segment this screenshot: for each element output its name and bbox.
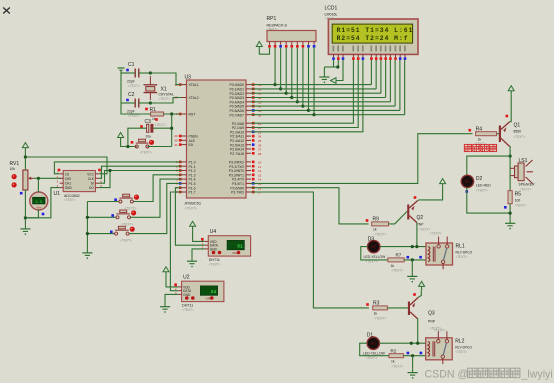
wire K3 to P1	[129, 183, 181, 233]
Q1 emitter marker	[506, 115, 509, 118]
U3 pin 12 state marker	[252, 169, 255, 172]
Q2 designator label	[417, 215, 424, 221]
wire P3.6 to R9	[251, 188, 369, 224]
ground (LCD)	[319, 73, 329, 83]
R9 text placeholder	[374, 232, 386, 236]
node analog ground junction	[24, 216, 27, 219]
RP1 pin 8 state marker	[307, 45, 310, 48]
ground (crystal caps common)	[118, 68, 125, 70]
LCD1 pin VEE state marker	[342, 57, 345, 60]
svg-text:VCC: VCC	[87, 172, 94, 176]
LS1 value label SPEAKER	[519, 183, 536, 187]
U1 pin 3 CH1	[57, 180, 72, 186]
svg-text:<TEXT>: <TEXT>	[325, 17, 336, 21]
wire C2 left	[121, 102, 135, 104]
node DI/DO junction	[108, 169, 111, 172]
wire R7 to RL1 coil bottom	[404, 259, 426, 261]
watermark glyph 3	[489, 368, 498, 377]
power +5V (U4)	[190, 221, 196, 230]
U1 VCC marker	[98, 169, 101, 172]
wire reset button left	[121, 142, 137, 147]
U3 pin 10 state marker	[252, 161, 255, 164]
svg-text:AT89C51: AT89C51	[185, 201, 202, 206]
svg-text:R4: R4	[476, 127, 483, 133]
U3 pin 8 P1.7	[176, 190, 196, 194]
U3 pin 15 P3.5/T1	[232, 182, 262, 186]
voltmeter gauge (pot display)	[30, 192, 48, 210]
wire LCD D4 vertical	[389, 60, 391, 102]
U3 pin 6 state marker	[179, 182, 182, 185]
node button rail junction 1	[86, 216, 89, 219]
R4 value label 1k	[478, 138, 482, 142]
resistor R2	[389, 354, 403, 358]
RL2 coil marker	[420, 352, 423, 355]
node RST junction	[170, 112, 173, 115]
wire P0.0 to LCD D0	[275, 84, 371, 86]
K1 red marker	[134, 195, 139, 200]
U3 pin 14 P3.4/T0	[232, 178, 262, 182]
C2 value label 22pF	[127, 110, 135, 114]
wire LCD D1 vertical	[375, 60, 377, 89]
wire K1 left	[87, 201, 119, 203]
svg-text:D2: D2	[476, 176, 483, 182]
wire cap ground rail	[120, 71, 122, 104]
LCD1 pin D2	[380, 46, 382, 58]
svg-text:RLY-SPCO: RLY-SPCO	[455, 345, 472, 349]
R3 text placeholder	[374, 316, 386, 320]
svg-text:17: 17	[258, 191, 262, 195]
svg-text:<TEXT>: <TEXT>	[456, 255, 468, 259]
svg-text:<TEXT>: <TEXT>	[182, 308, 194, 312]
RP1 text placeholder	[267, 27, 278, 31]
C1 value label 22pF	[127, 80, 135, 84]
LCD1 pin D7 state marker	[404, 57, 407, 60]
transistor Q3 (PNP)	[408, 297, 418, 318]
svg-text:10k: 10k	[10, 167, 16, 171]
svg-text:<TEXT>: <TEXT>	[374, 316, 386, 320]
R5 value label 100	[515, 198, 521, 202]
reset button text placeholder	[140, 151, 152, 155]
wire RP1 pin 5 vertical	[291, 48, 293, 98]
node RL2 coil junction b	[416, 342, 419, 345]
U4 pin 1 VDD	[202, 238, 217, 244]
wire D2 cathode to ground node	[467, 188, 510, 214]
LCD1 pin D7	[404, 46, 406, 58]
U1 value label ADC0832	[64, 194, 80, 198]
LCD1 pin D0 state marker	[370, 57, 373, 60]
R1 designator label	[150, 107, 157, 113]
C3 state marker	[140, 125, 143, 128]
svg-text:C2: C2	[128, 92, 135, 98]
D1 value label LED-YELLOW	[363, 352, 386, 356]
D3 designator label	[368, 237, 375, 243]
wire LCD D7 vertical	[404, 60, 406, 115]
wire down to LCD ground	[323, 67, 325, 73]
wire LCD VDD down	[337, 60, 339, 67]
node VCC junction	[24, 155, 27, 158]
LCD1 pin D2 state marker	[380, 57, 383, 60]
node button row junction	[126, 145, 129, 148]
wire RP1 pin 4 vertical	[285, 48, 287, 93]
wire LCD VEE down	[336, 60, 343, 81]
svg-text:CH0: CH0	[65, 177, 72, 181]
node P0.2 bus junction	[285, 92, 288, 95]
wire LCD D3 vertical	[385, 60, 387, 98]
U3 pin 1 P1.0	[176, 160, 196, 164]
C3 state marker 2	[155, 118, 158, 121]
ground (U4)	[187, 257, 197, 267]
X1 designator label	[161, 87, 167, 93]
U3 pin 10 P3.0/RXD	[229, 161, 262, 165]
RP1 pin 3 state marker	[279, 45, 282, 48]
transistor Q2 (PNP)	[407, 201, 417, 223]
op-amp U3 body AT89C51 microcontroller	[187, 80, 247, 198]
svg-text:51: 51	[237, 244, 243, 250]
U3 pin 29 state marker	[179, 135, 182, 138]
wire R4 to Q1 base	[497, 133, 499, 135]
wire +5V to RV1	[24, 152, 26, 170]
U4 pin 3 GND	[202, 245, 218, 251]
LS1 text placeholder	[520, 187, 532, 191]
LCD1 pin RS state marker	[352, 57, 355, 60]
C1 state marker	[126, 69, 129, 72]
wire C3 right	[153, 127, 172, 129]
svg-text:_lwyiyi: _lwyiyi	[521, 369, 553, 381]
Q2 value label PNP	[417, 223, 425, 227]
LCD1 pin VEE	[342, 46, 344, 58]
LS1 designator label	[519, 158, 528, 164]
wire RP1 pin 6 vertical	[296, 48, 298, 102]
K1 state marker	[114, 198, 117, 201]
svg-text:31: 31	[174, 143, 178, 147]
K3 text placeholder	[120, 239, 132, 243]
resistor R3	[373, 306, 388, 310]
node RL1 coil junction b	[415, 245, 418, 248]
U3 pin 22 state marker	[252, 126, 255, 129]
node P0.0 bus junction	[273, 83, 276, 86]
svg-text:D1: D1	[367, 333, 374, 339]
LCD1 pin VDD	[337, 46, 339, 58]
RL2 designator label	[455, 338, 464, 344]
svg-text:D3: D3	[368, 237, 375, 243]
resistor R4	[476, 132, 497, 136]
svg-text:RST: RST	[189, 113, 196, 117]
U3 pin 24 P2.3/A11	[230, 135, 261, 139]
wire P2.0 to LCD RS	[251, 60, 353, 123]
LCD1 screen	[332, 24, 413, 43]
R4 designator label	[476, 127, 483, 133]
red label alarm module glyph 4	[489, 144, 496, 151]
U3 pin 30 state marker	[179, 139, 182, 142]
R1 state marker	[145, 108, 148, 111]
Q3 emitter marker	[413, 293, 416, 296]
U3 pin 6 P1.5	[176, 182, 196, 186]
LCD1 pin D4	[389, 46, 391, 58]
svg-text:32: 32	[258, 113, 262, 117]
U2 value label DHT11	[182, 304, 193, 308]
wire P0.7 from chip	[251, 114, 314, 116]
LCD1 pin RW state marker	[357, 57, 360, 60]
ground (alarm)	[505, 219, 515, 229]
wire to relay ground	[411, 260, 413, 273]
svg-text:<TEXT>: <TEXT>	[476, 189, 488, 193]
Q3 designator label	[428, 311, 435, 317]
node XTAL2 junction	[149, 101, 152, 104]
LED D2 (red)	[461, 175, 473, 187]
U1 designator label	[54, 191, 61, 197]
wire R5 to ground	[509, 204, 511, 220]
U3 pin 5 state marker	[179, 178, 182, 181]
wire LCD D5 vertical	[394, 60, 396, 106]
wire P3.7 to R3	[251, 192, 369, 308]
U3 pin 32 P0.7/AD7	[229, 113, 261, 117]
node alarm ground junction	[509, 212, 512, 215]
wire U1 CLK to P1.1	[99, 166, 182, 178]
R5 state marker	[504, 206, 507, 209]
node XTAL1 junction	[149, 71, 152, 74]
D1 text placeholder	[366, 356, 378, 360]
wire P0.1 to LCD D1	[281, 88, 377, 90]
svg-text:<TEXT>: <TEXT>	[267, 27, 278, 31]
RP1 pin 8	[307, 42, 309, 45]
svg-text:RL2: RL2	[455, 338, 464, 344]
U3 pin 28 state marker	[252, 152, 255, 155]
sensor U4 humidity sensor upper body	[208, 236, 250, 256]
svg-text:P1.7: P1.7	[189, 191, 196, 195]
LCD1 pin D1 state marker	[375, 57, 378, 60]
watermark glyph 4	[500, 368, 509, 377]
wire +5V to U4 VDD	[193, 230, 205, 241]
U3 pin 34 P0.5/AD5	[229, 105, 261, 109]
svg-text:<TEXT>: <TEXT>	[209, 263, 221, 267]
svg-text:<TEXT>: <TEXT>	[392, 268, 404, 272]
wire reset button right	[147, 146, 171, 148]
ground (RV1)	[20, 225, 30, 235]
U3 pin 21 P2.0/A8	[232, 122, 262, 126]
svg-text:GND: GND	[183, 293, 191, 297]
svg-text:LCD1: LCD1	[325, 6, 338, 12]
ground (U2)	[160, 303, 170, 313]
C3 text placeholder	[155, 123, 167, 127]
svg-text:DI: DI	[91, 182, 94, 186]
LED D3 (yellow)	[368, 240, 380, 252]
U3 pin 26 state marker	[252, 143, 255, 146]
U3 pin 24 state marker	[252, 135, 255, 138]
LCD1 pin D3 state marker	[384, 57, 387, 60]
U3 pin 26 P2.5/A13	[230, 143, 262, 147]
wire gauge to ground rail	[25, 210, 38, 218]
wire P2.2 to LCD E	[251, 60, 363, 132]
U1 pin 2 CH0	[57, 175, 72, 181]
svg-text:R2=54 T2=24 M:f: R2=54 T2=24 M:f	[337, 35, 409, 42]
LCD1 designator label	[325, 6, 338, 12]
U3 pin 37 state marker	[252, 92, 255, 95]
node RL1 coil junction a	[411, 245, 414, 248]
LCD1 pin E	[362, 46, 364, 58]
RL2 contact text placeholder	[430, 326, 442, 330]
LCD1 pin D5 state marker	[394, 57, 397, 60]
svg-text:%RH: %RH	[232, 252, 238, 255]
reset button red marker	[149, 140, 154, 145]
U4 VDD marker	[201, 238, 204, 241]
wire D1 around to R2	[360, 343, 389, 356]
wire K1 to P1	[133, 175, 181, 202]
node P0.1 bus junction	[279, 87, 282, 90]
LCD1 pin VSS	[333, 46, 335, 58]
U3 pin 4 P1.3	[176, 173, 196, 177]
svg-text:8550: 8550	[514, 130, 522, 134]
reset button state marker	[131, 141, 134, 144]
LCD1 value label LM016L	[325, 13, 338, 17]
power +5V (RP1)	[256, 42, 262, 51]
node P0.5 bus junction	[301, 105, 304, 108]
wire D3 around to R7	[361, 247, 388, 260]
U3 pin 30 ALE	[174, 139, 195, 143]
power +5V (RL1 row)	[419, 281, 425, 290]
svg-text:GND: GND	[65, 186, 73, 190]
U3 pin 2 state marker	[179, 165, 182, 168]
watermark glyph 2	[478, 368, 487, 377]
D2 state marker	[466, 190, 469, 193]
LCD1 text placeholder	[325, 17, 336, 21]
LCD1 pin E state marker	[362, 57, 365, 60]
wire U1 DO join DI	[99, 171, 110, 188]
U3 pin 16 P3.6/WR	[230, 186, 261, 190]
U3 pin 38 P0.1/AD1	[229, 88, 261, 92]
U3 pin 39 state marker	[252, 83, 255, 86]
svg-text:<TEXT>: <TEXT>	[430, 232, 442, 236]
K2 red marker	[131, 210, 136, 215]
wire P2.1 to LCD RW	[251, 60, 358, 128]
wire RST vertical	[171, 114, 173, 147]
R7 right marker	[407, 256, 410, 259]
U3 pin 2 P1.1	[176, 164, 196, 168]
U3 pin 4 state marker	[179, 174, 182, 177]
wire P0.7 to LCD D7	[314, 114, 405, 116]
wire P0.3 from chip	[251, 97, 292, 99]
svg-text:1k: 1k	[478, 138, 482, 142]
LED D1 (yellow)	[367, 337, 379, 349]
capacitor C2	[135, 99, 139, 108]
node RL1 ground junction	[411, 258, 414, 261]
R5 text placeholder	[515, 203, 527, 207]
RP1 pin 6	[296, 42, 298, 45]
LCD1 pin VDD state marker	[337, 57, 340, 60]
wire Q1 emitter up	[510, 95, 512, 122]
U2 text placeholder	[182, 308, 194, 312]
U3 pin 31 state marker	[179, 143, 182, 146]
RP1 pin 9	[313, 42, 315, 45]
node RL2 coil junction a	[410, 342, 413, 345]
R4 text placeholder	[474, 142, 486, 146]
U3 pin 12 P3.2/INT0	[229, 169, 262, 173]
svg-text:ADC0832: ADC0832	[64, 194, 80, 198]
U4 value label DHT11	[209, 258, 220, 262]
node P0.7 bus junction	[312, 113, 315, 116]
node P0.6 bus junction	[307, 109, 310, 112]
wire C1 right	[139, 72, 151, 74]
U3 pin 29 PSEN	[174, 134, 198, 138]
K2 text placeholder	[122, 222, 134, 226]
R9 value label 1k	[373, 228, 377, 232]
U3 pin 19 XTAL1	[174, 83, 198, 87]
svg-text:PNP: PNP	[428, 320, 436, 324]
svg-text:1k: 1k	[373, 228, 377, 232]
C2 designator label	[128, 92, 135, 98]
node C3 right junction	[170, 127, 173, 130]
svg-text:RL1: RL1	[456, 244, 465, 250]
RP1 pin 9 state marker	[313, 45, 316, 48]
wire K2 to P1	[131, 179, 182, 217]
wire K3 left	[87, 233, 114, 235]
pushbutton K1	[119, 194, 133, 203]
svg-text:%RH: %RH	[206, 298, 212, 301]
wire C1 left	[121, 72, 135, 74]
wire D1 to RL2 coil top	[380, 342, 426, 344]
LCD1 pin D6	[399, 46, 401, 58]
D2 value label LED-RED	[476, 184, 491, 188]
U3 pin 17 state marker	[252, 191, 255, 194]
wire P0.4 from chip	[251, 101, 297, 103]
pushbutton K3	[115, 226, 130, 235]
wire P0.2 from chip	[251, 92, 286, 94]
LCD1 pin D3	[385, 46, 387, 58]
U3 pin 32 state marker	[252, 113, 255, 116]
wire P0.6 from chip	[251, 109, 308, 111]
wire U1 DI to P1.2	[99, 171, 182, 184]
wire LCD D6 vertical	[399, 60, 401, 111]
svg-text:<TEXT>: <TEXT>	[419, 228, 431, 232]
svg-text:<TEXT>: <TEXT>	[374, 232, 386, 236]
RV1 designator label	[10, 161, 20, 167]
U3 pin 38 state marker	[252, 88, 255, 91]
node alarm top junction	[509, 155, 512, 158]
svg-text:R9: R9	[373, 217, 380, 223]
Q3 text placeholder	[434, 329, 446, 333]
D3 text placeholder	[366, 260, 378, 264]
svg-text:Q3: Q3	[428, 311, 435, 317]
wire LCD D0 vertical	[370, 60, 372, 85]
U1 pin 6 DI	[91, 180, 103, 186]
U3 pin 14 state marker	[252, 178, 255, 181]
wire to XTAL1	[150, 73, 181, 85]
wire P0.5 from chip	[251, 105, 303, 107]
wire P0.1 from chip	[251, 88, 281, 90]
red label alarm module glyph 2	[473, 144, 480, 151]
U3 pin 31 EA	[174, 143, 193, 147]
RP1 pin 4	[285, 42, 287, 45]
R2 right marker	[407, 352, 410, 355]
U3 pin 33 state marker	[252, 109, 255, 112]
watermark glyph 5	[511, 368, 520, 377]
svg-text:P0.7/AD7: P0.7/AD7	[229, 113, 244, 117]
R2 designator label	[391, 348, 397, 353]
D2 designator label	[476, 176, 483, 182]
svg-text:<TEXT>: <TEXT>	[185, 207, 198, 211]
svg-text:LED-YELLOW: LED-YELLOW	[364, 255, 387, 259]
node wiper junction	[37, 177, 40, 180]
wire to D2 anode	[467, 156, 510, 175]
C2 state marker	[126, 99, 129, 102]
svg-text:<TEXT>: <TEXT>	[366, 356, 378, 360]
resistor R5	[508, 191, 512, 204]
RP1 pin 5 state marker	[290, 45, 293, 48]
U2 pin 1 VDD	[175, 283, 190, 289]
crystal X1	[144, 76, 158, 100]
svg-text:C3: C3	[145, 119, 152, 125]
svg-text:28: 28	[258, 152, 262, 156]
svg-text:1k: 1k	[391, 264, 395, 268]
